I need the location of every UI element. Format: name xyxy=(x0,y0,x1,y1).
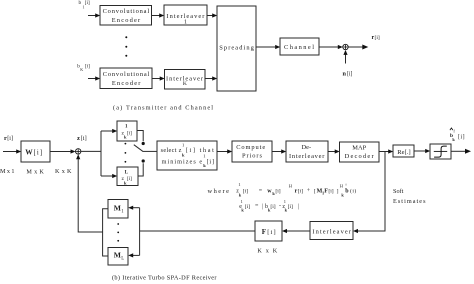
svg-text:+: + xyxy=(307,188,311,194)
svg-text:[: [ xyxy=(314,189,316,195)
svg-text:[i]: [i] xyxy=(127,130,132,136)
svg-text:select z: select z xyxy=(161,147,182,154)
svg-text:Decoder: Decoder xyxy=(345,153,375,160)
svg-text:[i]: [i] xyxy=(127,176,132,182)
svg-text:[i]: [i] xyxy=(375,35,380,41)
block select/minimize xyxy=(157,141,217,170)
svg-text:[i]: [i] xyxy=(245,204,250,210)
wire channel to adder xyxy=(319,46,339,48)
svg-text:F: F xyxy=(262,228,266,236)
wire feedback vertical from MAP output xyxy=(358,152,386,232)
block MAP Decoder xyxy=(340,142,380,162)
switch contact top xyxy=(142,142,145,145)
svg-text:K: K xyxy=(183,81,187,87)
svg-text:M: M xyxy=(114,250,121,259)
wire interleaverK to spreading xyxy=(205,78,213,80)
wire encoder1 to interleaver1 xyxy=(152,15,161,17)
svg-text:Estimates: Estimates xyxy=(393,198,426,205)
svg-text:Priors: Priors xyxy=(242,152,263,159)
svg-text:Spreading: Spreading xyxy=(219,44,254,51)
svg-text:[i]: [i] xyxy=(347,72,353,78)
svg-text:where: where xyxy=(208,188,230,195)
svg-text:Interleaver: Interleaver xyxy=(312,229,351,236)
block W[i] xyxy=(21,141,50,162)
svg-text:(i): (i) xyxy=(350,188,356,195)
svg-text:b: b xyxy=(79,0,82,6)
svg-text:=: = xyxy=(259,188,263,194)
svg-text:[i]: [i] xyxy=(298,189,303,195)
svg-text:K x K: K x K xyxy=(55,168,72,175)
wire MAP to Re xyxy=(379,151,389,153)
wire adder2 to branch junction xyxy=(81,150,101,152)
block Convolutional Encoder K xyxy=(100,68,152,89)
svg-text:W: W xyxy=(25,147,33,156)
svg-text:k: k xyxy=(182,153,185,158)
svg-text:[i]: [i] xyxy=(275,189,280,195)
wire W to adder2 xyxy=(50,151,72,153)
wire encoderK to interleaverK xyxy=(152,78,161,80)
wire M right bracket xyxy=(139,208,141,256)
svg-text:Convolutional: Convolutional xyxy=(103,71,150,78)
block slicer xyxy=(430,144,451,159)
svg-text:Compute: Compute xyxy=(236,144,265,151)
svg-text:M: M xyxy=(114,204,121,213)
block Interleaver 1 xyxy=(164,5,207,26)
svg-text:1: 1 xyxy=(284,199,286,204)
svg-text:|: | xyxy=(298,204,299,210)
wire input b1 xyxy=(88,15,96,17)
node bhat_k[i] output label xyxy=(450,128,465,142)
block F[i] xyxy=(255,221,282,241)
svg-text:[i]: [i] xyxy=(270,204,275,210)
block ML xyxy=(108,248,128,266)
svg-text:n: n xyxy=(343,71,347,78)
svg-text:Soft: Soft xyxy=(393,188,404,195)
svg-text:Re[.]: Re[.] xyxy=(397,149,411,156)
wire branch vertical xyxy=(100,131,102,176)
wire branch to zboxL xyxy=(101,175,113,177)
adder sum1 xyxy=(343,44,348,49)
svg-text:[i] that: [i] that xyxy=(186,147,214,154)
svg-text:Encoder: Encoder xyxy=(112,80,141,87)
dots between M boxes xyxy=(117,223,119,242)
switch arm xyxy=(134,145,143,152)
wire adder output r[i] xyxy=(348,46,363,48)
svg-text:K: K xyxy=(80,67,83,72)
svg-text:Encoder: Encoder xyxy=(112,17,141,24)
wire spreading to channel xyxy=(256,46,276,48)
wire F to M bracket xyxy=(140,230,255,232)
equation 1 xyxy=(236,182,356,197)
block Channel xyxy=(280,38,319,55)
block Interleaver K xyxy=(165,70,206,90)
block Compute Priors xyxy=(232,141,272,162)
block De-Interleaver xyxy=(286,141,328,162)
dots between encoder rows xyxy=(125,36,127,57)
wire noise arrow xyxy=(345,54,347,64)
svg-text:[i]: [i] xyxy=(207,158,214,165)
wire compute to deinterleaver xyxy=(272,151,282,153)
switch contact bottom xyxy=(142,159,145,162)
svg-text:K x K: K x K xyxy=(257,247,277,254)
block Re[.] xyxy=(393,145,414,157)
wire slicer output xyxy=(451,150,466,152)
wire switch to select box xyxy=(142,150,157,152)
svg-text:(b) Iterative Turbo SPA-DF Rec: (b) Iterative Turbo SPA-DF Receiver xyxy=(112,274,217,281)
svg-text:[i]: [i] xyxy=(243,189,248,195)
svg-text:[i]: [i] xyxy=(267,229,276,236)
svg-text:1: 1 xyxy=(241,199,243,204)
svg-text:De-: De- xyxy=(302,144,312,151)
block zLk[i] xyxy=(117,167,138,186)
svg-text:M x 1: M x 1 xyxy=(0,168,15,175)
wire zboxL output to contact xyxy=(138,163,143,176)
svg-text:[i]: [i] xyxy=(85,64,90,70)
svg-text:1: 1 xyxy=(184,20,187,26)
block Convolutional Encoder 1 xyxy=(100,6,152,26)
svg-text:-: - xyxy=(279,203,281,209)
wire select to compute priors xyxy=(217,151,228,153)
svg-text:M x K: M x K xyxy=(26,169,44,176)
wire bracket to M1 xyxy=(133,207,140,209)
svg-text:[i]: [i] xyxy=(85,0,90,6)
adder sum2 xyxy=(76,149,81,154)
svg-text:[i]: [i] xyxy=(34,149,43,156)
block Interleaver feedback xyxy=(310,222,353,240)
wire interleaver to F xyxy=(287,230,311,232)
svg-text:Interleaver: Interleaver xyxy=(289,153,325,160)
wire input bK xyxy=(88,78,96,80)
dots between z boxes xyxy=(125,143,127,163)
wire branch to zbox1 xyxy=(101,130,113,132)
svg-text:[i]: [i] xyxy=(7,136,13,142)
equation 2 xyxy=(239,199,299,212)
svg-text:[i]: [i] xyxy=(458,134,465,140)
svg-text:[i]: [i] xyxy=(288,204,293,210)
wire deinterleaver to MAP xyxy=(328,151,336,153)
svg-text:L: L xyxy=(121,256,124,261)
node b1[i] input label xyxy=(79,0,90,10)
svg-text:Convolutional: Convolutional xyxy=(103,8,150,15)
wire interleaver1 to spreading xyxy=(207,15,213,17)
svg-text:]: ] xyxy=(337,189,339,195)
svg-text:^: ^ xyxy=(345,183,347,188)
block z1k[i] xyxy=(117,121,137,141)
block M1 xyxy=(108,200,128,219)
wire bracket to ML xyxy=(133,254,140,256)
svg-text:[i]: [i] xyxy=(328,189,333,195)
wire zbox1 output to contact xyxy=(137,131,143,142)
svg-text:MAP: MAP xyxy=(352,145,366,152)
wire M left bracket xyxy=(103,209,108,256)
wire bracket to adder2 xyxy=(78,158,102,232)
node bK[i] input label xyxy=(77,64,90,73)
svg-text:1: 1 xyxy=(238,182,240,187)
wire receiver input xyxy=(3,151,17,153)
block Spreading xyxy=(217,6,256,91)
svg-text:z: z xyxy=(77,135,80,142)
svg-text:[i]: [i] xyxy=(81,135,87,142)
wire Re to slicer xyxy=(414,150,426,152)
